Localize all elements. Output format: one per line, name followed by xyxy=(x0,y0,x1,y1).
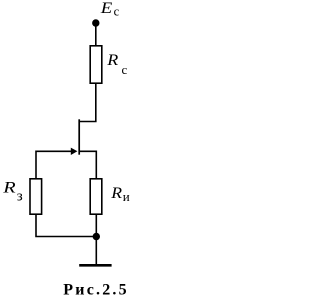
label Rc xyxy=(106,52,127,77)
transistor VT channel bar xyxy=(78,119,80,154)
label Ri xyxy=(110,185,130,204)
svg-text:E: E xyxy=(100,0,113,17)
resistor Ri xyxy=(90,179,102,214)
svg-text:R: R xyxy=(106,52,118,69)
svg-text:R: R xyxy=(2,180,16,197)
resistor Rc xyxy=(90,46,102,83)
wire gate to Rz xyxy=(35,151,37,179)
svg-text:c: c xyxy=(114,4,120,18)
svg-text:и: и xyxy=(123,189,130,204)
node Ec terminal dot xyxy=(92,19,99,26)
label Rz xyxy=(2,180,23,205)
wire Ri to bottom node xyxy=(95,215,97,237)
transistor source wire to Ri xyxy=(79,151,96,178)
svg-text:Рис.2.5: Рис.2.5 xyxy=(63,282,129,299)
ground xyxy=(79,264,111,267)
wire Ec to Rc xyxy=(95,23,97,46)
node junction dot xyxy=(93,233,100,240)
resistor Rz xyxy=(30,179,42,214)
node Ec label xyxy=(100,0,120,18)
svg-text:R: R xyxy=(110,185,122,202)
transistor gate wire with arrow xyxy=(36,148,77,155)
wire node to ground xyxy=(95,237,97,265)
svg-text:c: c xyxy=(122,62,128,77)
wire Rc to drain xyxy=(79,84,96,122)
svg-text:з: з xyxy=(17,189,23,205)
wire Rz to bottom node xyxy=(36,215,96,237)
